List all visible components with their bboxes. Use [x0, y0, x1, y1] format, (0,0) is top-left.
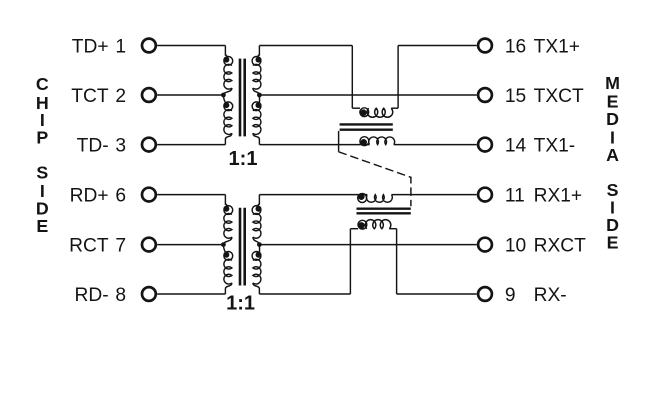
wire T2 primary winding entry vertical [224, 195, 226, 205]
terminal pin 1 (TD+) [142, 39, 156, 53]
L1 lower winding phase dot [360, 139, 367, 146]
wire L2 right vertical drop [396, 229, 398, 294]
svg-text:2: 2 [115, 86, 126, 107]
svg-text:16: 16 [505, 37, 526, 58]
svg-text:TD+: TD+ [72, 37, 109, 58]
core line 2 of T2 [243, 208, 246, 286]
common-mode choke L2 (RX side) [350, 193, 410, 294]
L1 upper winding first turn loop [360, 108, 369, 117]
wire pin8 to T2 primary bottom [157, 293, 225, 295]
T1 primary winding upper-half first turn loop [224, 57, 233, 66]
T1 primary winding lower-half turns [224, 110, 232, 135]
svg-text:D: D [606, 109, 619, 129]
core bar 2 of L1 [340, 128, 393, 130]
T2 primary winding lower-half turns [224, 259, 232, 284]
L1 upper winding lead-in stub [352, 107, 360, 109]
T2 primary winding centre-tap lead [223, 237, 232, 245]
svg-text:C: C [36, 74, 49, 94]
svg-text:9: 9 [505, 285, 516, 306]
svg-text:E: E [607, 232, 619, 252]
core line 2 of T1 [243, 59, 246, 137]
T1 secondary winding lower-half entry curl [258, 95, 260, 103]
wire T1 secondary tap to pin15 (TXCT) [259, 94, 476, 96]
T1 primary winding lower-half entry curl [223, 95, 225, 103]
T1 primary winding upper-half entry curl [225, 55, 227, 57]
T1 secondary winding lower-half first turn loop [252, 102, 261, 111]
T2 primary winding upper-half phase dot [223, 206, 229, 212]
wire pin6 to T2 primary top [157, 194, 225, 196]
wire T2 secondary winding entry vertical [258, 195, 260, 205]
svg-text:RD-: RD- [74, 285, 108, 306]
wire choke L1 to pin16 [398, 45, 477, 47]
T1 secondary winding lower-half phase dot [256, 102, 262, 108]
terminal pin 14 (TX1-) [478, 138, 492, 152]
transformer T2 [221, 195, 262, 315]
terminal pin 3 (TD-) [142, 138, 156, 152]
T2 secondary winding upper-half entry curl [257, 204, 259, 206]
shared-core link dashed segment to L2 core [339, 152, 411, 207]
svg-text:TD-: TD- [77, 136, 109, 157]
core bar 2 of L2 [357, 212, 411, 214]
svg-text:S: S [36, 163, 48, 183]
wire T1 secondary winding entry vertical [258, 46, 260, 56]
svg-text:TXCT: TXCT [534, 86, 584, 107]
T2 primary winding lower-half entry curl [223, 245, 225, 253]
T1 primary winding upper-half phase dot [223, 57, 229, 63]
core line 1 of T2 [239, 208, 242, 286]
T1 secondary winding upper-half entry curl [257, 55, 259, 57]
svg-text:A: A [606, 145, 619, 165]
svg-text:RCT: RCT [69, 236, 109, 257]
T2 primary winding lower-half first turn loop [224, 252, 233, 261]
junction dot T1 secondary winding centre tap [257, 93, 262, 98]
wire T2 primary winding exit to bottom row [225, 283, 232, 294]
wire T2 secondary bottom to choke L2 [259, 293, 350, 295]
caption MEDIA SIDE (vertical) [605, 73, 620, 252]
T2 primary winding upper-half turns [224, 213, 232, 238]
T2 secondary winding upper-half first turn loop [252, 206, 261, 215]
wire choke L2 to pin9 [397, 293, 477, 295]
svg-text:RD+: RD+ [70, 186, 109, 207]
L2 lower winding first turn loop [358, 220, 367, 229]
terminal pin 11 (RX1+) [478, 188, 492, 202]
svg-text:E: E [36, 216, 48, 236]
terminal pin 6 (RD+) [142, 188, 156, 202]
core line 1 of T1 [239, 59, 242, 137]
wire T2 secondary top to choke L2 upper winding [259, 194, 367, 196]
L2 upper winding phase dot [358, 193, 365, 200]
L2 lower winding lead-in stub [350, 228, 358, 230]
wire T2 secondary tap to pin10 (RXCT) [259, 244, 476, 246]
wire L1 right vertical rise [397, 46, 399, 109]
shared-core link solid segment from L1 core [338, 131, 340, 152]
L1 upper winding phase dot [360, 109, 367, 116]
wire L2 left vertical drop [349, 229, 351, 294]
core bar 1 of L1 [340, 123, 393, 125]
wire pin2 to T1 primary centre tap [157, 94, 223, 96]
wire T1 secondary bottom to choke L1 lower winding [259, 144, 369, 146]
L2 upper winding turns [366, 195, 392, 203]
junction dot T1 primary winding centre tap [221, 93, 226, 98]
T1 secondary winding upper-half first turn loop [252, 57, 261, 66]
svg-text:TX1+: TX1+ [534, 37, 580, 58]
L1 lower winding turns [369, 137, 395, 145]
svg-text:8: 8 [115, 285, 126, 306]
T2 secondary winding lower-half first turn loop [252, 252, 261, 261]
transformer T1 [221, 46, 262, 171]
svg-text:14: 14 [505, 136, 527, 157]
common-mode choke L1 (TX side) [340, 46, 399, 146]
T2 secondary winding centre-tap lead [253, 237, 260, 245]
wire choke L2 upper winding to pin11 [392, 194, 477, 196]
T1 primary winding lower-half first turn loop [224, 102, 233, 111]
T1 secondary winding centre-tap lead [253, 88, 260, 95]
svg-text:1:1: 1:1 [229, 148, 258, 170]
terminal pin 9 (RX-) [478, 287, 492, 301]
L2 lower winding turns [365, 220, 391, 229]
wire T1 secondary top to choke L1 [259, 45, 352, 47]
svg-text:RX-: RX- [534, 285, 567, 306]
svg-text:RXCT: RXCT [534, 236, 587, 257]
T2 primary winding lower-half phase dot [223, 252, 229, 258]
wire T1 primary winding exit to bottom row [225, 133, 232, 144]
T1 secondary winding upper-half phase dot [256, 57, 262, 63]
svg-text:3: 3 [115, 136, 126, 157]
svg-text:TX1-: TX1- [534, 136, 576, 157]
svg-text:1:1: 1:1 [226, 292, 255, 314]
T1 primary winding centre-tap lead [223, 88, 232, 95]
T2 secondary winding lower-half turns [253, 259, 261, 284]
caption CHIP SIDE (vertical) [36, 74, 49, 236]
junction dot T2 secondary winding centre tap [257, 242, 262, 247]
terminal pin 7 (RCT) [142, 238, 156, 252]
wire pin7 to T2 primary centre tap [157, 244, 223, 246]
T2 secondary winding upper-half turns [253, 213, 261, 238]
wire L1 left vertical drop [351, 46, 353, 109]
svg-text:TCT: TCT [71, 86, 109, 107]
junction dot T2 primary winding centre tap [221, 242, 226, 247]
terminal pin 10 (RXCT) [478, 238, 492, 252]
L1 lower winding first turn loop [360, 137, 369, 146]
terminal pin 16 (TX1+) [478, 39, 492, 53]
wire choke L1 lower winding to pin14 [394, 144, 477, 146]
core bar 1 of L2 [357, 207, 411, 209]
svg-text:M: M [605, 73, 620, 93]
wire pin1 to T1 primary top [157, 45, 225, 47]
terminal pin 2 (TCT) [142, 88, 156, 102]
svg-text:7: 7 [115, 236, 126, 257]
T2 primary winding upper-half first turn loop [224, 206, 233, 215]
L2 upper winding first turn loop [358, 194, 367, 203]
L1 upper winding lead-out stub [391, 107, 398, 109]
wire T1 primary winding entry vertical [224, 46, 226, 56]
T2 secondary winding upper-half phase dot [256, 206, 262, 212]
T1 secondary winding upper-half turns [253, 64, 261, 89]
svg-text:11: 11 [505, 186, 525, 207]
T1 primary winding lower-half phase dot [223, 102, 229, 108]
T1 secondary winding lower-half turns [253, 110, 261, 135]
T1 primary winding upper-half turns [224, 64, 232, 89]
terminal pin 15 (TXCT) [478, 88, 492, 102]
T2 primary winding upper-half entry curl [225, 204, 227, 206]
svg-text:10: 10 [505, 236, 526, 257]
T2 secondary winding lower-half entry curl [258, 245, 260, 253]
svg-text:RX1+: RX1+ [534, 186, 583, 207]
svg-text:6: 6 [115, 186, 126, 207]
wire pin3 to T1 primary bottom [157, 144, 225, 146]
svg-text:P: P [36, 128, 48, 148]
L2 lower winding lead-out stub [389, 228, 396, 230]
svg-text:15: 15 [505, 86, 526, 107]
terminal pin 8 (RD-) [142, 287, 156, 301]
L1 upper winding turns [367, 108, 393, 117]
T2 secondary winding lower-half phase dot [256, 252, 262, 258]
wire T2 secondary winding exit to bottom row [253, 283, 260, 294]
L2 lower winding phase dot [358, 222, 365, 229]
svg-text:1: 1 [115, 37, 126, 58]
wire T1 secondary winding exit to bottom row [253, 133, 260, 144]
